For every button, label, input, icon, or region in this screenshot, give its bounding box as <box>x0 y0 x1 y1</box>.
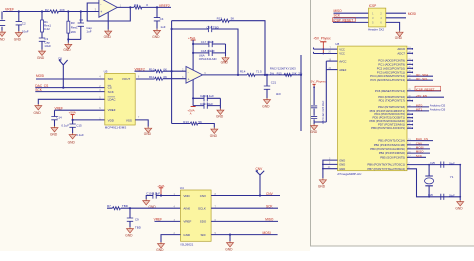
MCU U8 ATmega328P-AU <box>335 42 407 176</box>
svg-text:PB0 (PCINT0/CLKO/ICP1): PB0 (PCINT0/CLKO/ICP1) <box>371 126 405 130</box>
svg-text:+: + <box>100 10 102 14</box>
svg-text:LDAC: LDAC <box>108 97 117 101</box>
op-amp U6A OPA1641AID <box>182 53 217 83</box>
svg-text:GND: GND <box>183 233 191 237</box>
svg-text:INT1: INT1 <box>416 108 423 112</box>
svg-text:10uF: 10uF <box>22 29 29 33</box>
ground below C15 <box>69 133 76 139</box>
wire V+ pin rail <box>192 40 194 70</box>
svg-text:71.5: 71.5 <box>256 70 262 74</box>
capacitor C15 0.1uF <box>69 120 84 137</box>
wire pin stub PC2 <box>407 68 413 70</box>
svg-text:I2C_SCL: I2C_SCL <box>416 77 429 81</box>
wire U4 SDI out <box>211 234 278 236</box>
svg-text:+5VA: +5VA <box>157 184 164 188</box>
wire SCK pin <box>407 156 426 158</box>
resistor R4 0 (series on output) <box>134 3 149 9</box>
svg-text:Y1: Y1 <box>450 175 454 179</box>
svg-text:SDI: SDI <box>108 77 113 81</box>
svg-text:R7: R7 <box>107 204 111 208</box>
svg-text:C4: C4 <box>160 17 164 21</box>
svg-text:GND: GND <box>14 38 22 42</box>
resistor R11 10K <box>149 75 167 80</box>
svg-text:C26: C26 <box>428 193 433 197</box>
wire DAC_CS to U5 CS <box>35 87 105 89</box>
svg-text:CNV: CNV <box>200 194 206 198</box>
wire VREF main rail <box>3 11 99 13</box>
ground below C2 <box>15 31 22 37</box>
ground below C9 <box>127 227 134 233</box>
wire AVCC stub <box>326 60 337 62</box>
svg-text:AIN0: AIN0 <box>183 207 190 211</box>
svg-text:GND: GND <box>339 158 345 162</box>
node Y junction gnd2 <box>322 164 324 166</box>
node A junction on VREF rail <box>18 10 20 12</box>
svg-text:C15: C15 <box>76 124 82 128</box>
node Z junction gnd3 <box>322 168 324 170</box>
node Q junction C21 tap <box>266 74 268 76</box>
svg-text:GND: GND <box>455 206 463 210</box>
resistor R3 Res1 20K <box>67 12 78 43</box>
svg-text:ATmega328P-AU: ATmega328P-AU <box>337 172 361 176</box>
svg-text:AREF: AREF <box>339 68 347 72</box>
capacitor C4 1uF <box>154 7 166 28</box>
ground below C4 <box>154 29 161 35</box>
wire INT1 pin <box>407 110 429 112</box>
ground below C14 <box>51 126 58 132</box>
svg-text:PB5 (SCK/PCINT5): PB5 (SCK/PCINT5) <box>380 155 405 159</box>
svg-text:VSS: VSS <box>126 118 132 122</box>
svg-text:1uF: 1uF <box>160 25 165 29</box>
svg-text:C14: C14 <box>56 116 62 120</box>
ground below crystal <box>457 200 464 206</box>
svg-text:GND: GND <box>37 56 45 60</box>
svg-text:OPA1641AID: OPA1641AID <box>199 57 218 61</box>
node U junction CNV tie <box>259 194 261 196</box>
svg-text:C17 10uF: C17 10uF <box>201 40 214 44</box>
wire pin stub PD4 <box>407 113 413 115</box>
svg-text:MOSI: MOSI <box>263 231 271 235</box>
svg-text:TBD: TBD <box>122 204 129 208</box>
svg-text:0.1uF: 0.1uF <box>76 133 84 137</box>
svg-text:SCLK: SCLK <box>198 207 206 211</box>
capacitor C2 <box>16 12 29 34</box>
wire R12 feedback top <box>172 21 265 75</box>
svg-text:GND: GND <box>0 38 5 42</box>
svg-text:U4: U4 <box>180 186 184 190</box>
svg-text:20K: 20K <box>60 8 65 12</box>
ground below C1 <box>0 31 6 37</box>
svg-text:GND: GND <box>156 248 164 252</box>
capacitor C22 (avcc) <box>311 106 317 108</box>
svg-text:GND: GND <box>152 35 160 39</box>
svg-text:R11: R11 <box>149 75 155 79</box>
capacitor C18 0.1uF <box>193 49 225 56</box>
resistor R10 10K <box>149 67 167 72</box>
svg-text:-: - <box>100 2 101 6</box>
svg-text:+5VA: +5VA <box>69 110 76 114</box>
svg-text:GND: GND <box>339 163 345 167</box>
svg-text:GND: GND <box>34 111 42 115</box>
svg-text:+: + <box>188 78 190 82</box>
wire U5 VOUT into R11 <box>136 78 186 80</box>
svg-text:C9: C9 <box>135 218 139 222</box>
node T junction C9 tap <box>129 207 131 209</box>
wire U4 GND pin to ground <box>161 235 181 242</box>
power port +5VA (amp V- rail bottom) <box>187 107 195 116</box>
svg-text:0K: 0K <box>163 67 167 71</box>
resistor R1 Res1 0.22 <box>41 12 52 33</box>
wire GND pins join <box>323 160 338 178</box>
svg-text:R10: R10 <box>149 67 155 71</box>
svg-text:MOSI: MOSI <box>408 12 416 16</box>
node AB junction xtal2/crystal <box>428 196 430 198</box>
svg-text:RNCY1206TKY1003: RNCY1206TKY1003 <box>270 66 296 70</box>
wire pin stub PD6 <box>407 120 413 122</box>
wire ICSP_RESET to header pin5 <box>333 21 369 23</box>
svg-text:16pF: 16pF <box>449 161 455 165</box>
svg-text:1uF: 1uF <box>86 30 91 34</box>
node AV junction avcc port <box>313 86 315 88</box>
connector J? ICSP Header 3X2 <box>368 4 386 31</box>
capacitor C25 16pF <box>430 161 455 168</box>
svg-text:C2: C2 <box>22 21 26 25</box>
wire pin stub PC0 <box>407 60 413 62</box>
svg-text:PD1 (TXD/PCINT17): PD1 (TXD/PCINT17) <box>379 99 405 103</box>
wire MOSI to U5 SDI <box>36 78 105 80</box>
svg-text:GND: GND <box>63 48 71 52</box>
wire VCC pins rail <box>314 48 338 54</box>
wire VREF to U5 <box>55 109 105 111</box>
svg-text:R2: R2 <box>45 8 49 12</box>
svg-text:MOSI: MOSI <box>36 74 44 78</box>
net tie CNV (Y symbol) <box>256 167 265 196</box>
wire VREF to U4 <box>155 220 181 222</box>
wire XTAL1 top rail <box>407 164 460 166</box>
svg-text:3nF: 3nF <box>276 92 281 96</box>
wire pin stub PD5 <box>407 117 413 119</box>
wire U4 CNV out <box>211 195 280 197</box>
svg-text:5K: 5K <box>231 17 235 21</box>
svg-text:VCC: VCC <box>339 52 345 56</box>
svg-text:Arduino D3: Arduino D3 <box>430 108 446 112</box>
wire pin stub PC3 <box>407 72 413 74</box>
svg-text:R15: R15 <box>277 71 283 75</box>
svg-text:+5VA: +5VA <box>188 36 195 40</box>
resistor R13 5K <box>183 120 202 125</box>
capacitor C14 0.1uF <box>51 110 69 128</box>
node F junction output/feedback <box>129 6 131 8</box>
wire crystal right join <box>459 165 461 200</box>
capacitor C20 0.1uF <box>193 94 220 101</box>
sheet background left <box>0 0 310 251</box>
svg-text:SDO: SDO <box>200 220 207 224</box>
node M junction C18 <box>192 52 194 54</box>
ground for C19/C20 <box>217 109 224 115</box>
ground on LDAC <box>35 104 42 110</box>
wire VREF2 into R10 <box>135 70 187 72</box>
svg-text:C20 0.1uF: C20 0.1uF <box>200 94 214 98</box>
node O junction R12 on output <box>264 74 266 76</box>
resistor R15 RNCY1206TKY1003 10K <box>270 66 303 76</box>
svg-text:C8: C8 <box>58 57 62 61</box>
resistor R7 TBD input <box>107 204 129 210</box>
svg-text:GND: GND <box>210 134 218 138</box>
svg-text:PB7 (PCINT7/XTAL2/TOSC2): PB7 (PCINT7/XTAL2/TOSC2) <box>367 167 405 171</box>
wire I2C_SCL pin <box>407 79 433 81</box>
svg-text:GND: GND <box>221 60 229 64</box>
svg-text:0K: 0K <box>163 75 167 79</box>
svg-text:VREF: VREF <box>108 108 116 112</box>
node P junction output stub <box>300 74 302 76</box>
svg-text:VCC: VCC <box>339 47 345 51</box>
svg-text:VDD: VDD <box>108 118 115 122</box>
wire MOSI pin <box>407 148 430 150</box>
svg-text:GND: GND <box>144 132 152 136</box>
svg-text:Res1: Res1 <box>71 25 78 29</box>
svg-text:SCK: SCK <box>334 14 341 18</box>
node H junction C8 on DAC_CS <box>62 87 64 89</box>
svg-text:C22 0.1uF C23 10uF: C22 0.1uF C23 10uF <box>322 100 325 124</box>
wire C17/C18 right join to ground <box>225 44 227 56</box>
ground below op-amp U2A <box>107 12 109 29</box>
svg-text:10K: 10K <box>292 71 297 75</box>
svg-text:20K: 20K <box>71 30 76 34</box>
svg-text:SCK: SCK <box>416 154 422 158</box>
capacitor C17 10uF <box>193 40 225 47</box>
ground below R3 <box>65 43 72 49</box>
capacitor C1 (partial at left edge) <box>0 12 5 31</box>
svg-text:GND: GND <box>50 132 58 136</box>
ground below C21 <box>264 98 271 104</box>
wire header pin2 out <box>386 12 406 14</box>
svg-text:GND: GND <box>262 104 270 108</box>
svg-text:5V_Phyrex: 5V_Phyrex <box>311 79 327 83</box>
node J junction feedback/minus input <box>171 70 173 72</box>
wire pin stub PD1 <box>407 100 413 102</box>
svg-text:10uF: 10uF <box>44 44 51 48</box>
ground for C10 <box>143 199 150 205</box>
capacitor C23 (avcc) <box>311 117 317 119</box>
node X junction vcc2 <box>322 53 324 55</box>
svg-text:MCP4911-E/MS: MCP4911-E/MS <box>105 126 126 130</box>
capacitor C9 TBD <box>127 208 142 229</box>
svg-text:R14: R14 <box>240 70 246 74</box>
ground below U4 right <box>227 241 234 247</box>
svg-text:MISO: MISO <box>334 9 343 13</box>
node L junction C17 <box>192 43 194 45</box>
wire U4 SCLK out <box>211 207 278 209</box>
node B junction on VREF rail <box>41 10 43 12</box>
svg-text:5%: 5% <box>270 71 275 75</box>
wire V- pin rail down <box>192 80 194 106</box>
wire SCK to U5 SCK <box>35 91 105 93</box>
resistor R14 71.5 <box>240 70 262 77</box>
wire SDI gnd stub <box>229 235 231 241</box>
ground below C3 <box>39 50 46 56</box>
wire ICSP_RESET pin <box>407 90 441 92</box>
svg-text:GND: GND <box>68 141 76 145</box>
svg-text:0.1uF: 0.1uF <box>61 124 69 128</box>
svg-text:GND: GND <box>216 115 224 119</box>
svg-text:VREF: VREF <box>183 220 191 224</box>
svg-text:R4: R4 <box>134 3 138 7</box>
wire MISO to header pin1 <box>334 12 369 14</box>
svg-text:GND: GND <box>225 247 233 251</box>
net tie C8 (Y symbol) <box>58 57 68 88</box>
node R junction C20 <box>192 97 194 99</box>
svg-text:PC5 (ADC5/SCL/PCINT13): PC5 (ADC5/SCL/PCINT13) <box>370 78 405 82</box>
capacitor C3 Cap 10uF <box>39 32 52 50</box>
node G junction at C4 tap <box>156 6 158 8</box>
svg-text:C18 0.1uF: C18 0.1uF <box>201 49 215 53</box>
svg-text:C16 TBD: C16 TBD <box>207 25 220 29</box>
svg-text:VREF2: VREF2 <box>159 4 170 8</box>
svg-text:GND: GND <box>318 185 326 189</box>
wire INT0 pin <box>407 106 429 108</box>
svg-text:GND: GND <box>310 130 318 134</box>
svg-text:+5V_Phyrex: +5V_Phyrex <box>313 36 331 40</box>
svg-text:GND: GND <box>395 36 403 40</box>
svg-text:Header 3X2: Header 3X2 <box>368 28 384 32</box>
svg-text:SDI: SDI <box>201 233 206 237</box>
node C junction on rail <box>67 10 69 12</box>
ground for C17/C18 <box>222 56 229 62</box>
svg-text:R3: R3 <box>71 21 75 25</box>
ground below R13 <box>211 128 218 134</box>
power port +5VA (adc) <box>157 184 164 196</box>
node N junction C16 on output <box>237 74 239 76</box>
ground below VSS <box>145 127 152 133</box>
svg-text:SCK: SCK <box>266 205 273 209</box>
op-amp U2A buffer (top cut off) <box>95 0 122 17</box>
svg-text:C6: C6 <box>79 18 83 22</box>
crystal Y1 <box>425 165 454 197</box>
wire pin stub PC1 <box>407 64 413 66</box>
wire header pin4 out <box>386 17 406 19</box>
node E junction on rail at C6 <box>80 10 82 12</box>
sheet background right <box>310 0 474 246</box>
svg-text:-: - <box>188 70 189 74</box>
wire op-amp output <box>117 6 171 8</box>
wire op-amp output <box>203 74 302 76</box>
capacitor C19 10uF <box>193 102 220 109</box>
svg-text:CNV: CNV <box>266 192 274 196</box>
svg-text:AVCC: AVCC <box>339 59 346 63</box>
svg-text:R13: R13 <box>183 120 189 124</box>
ground below U4 left <box>158 242 165 248</box>
svg-text:TBD: TBD <box>135 225 142 229</box>
wire pin stub PB0 <box>407 127 413 129</box>
capacitor C21 3nF <box>264 75 281 98</box>
resistor R2 20K (series on rail) <box>45 8 65 13</box>
node D junction R3 bottom <box>67 38 69 40</box>
power port 5V_Phyrex (avcc) <box>311 79 327 87</box>
svg-text:5K: 5K <box>198 120 202 124</box>
svg-text:VOUT: VOUT <box>122 77 131 81</box>
ground below header <box>396 31 403 37</box>
DAC U5 MCP4911-E/MS <box>99 70 140 130</box>
wire AREF stub <box>326 69 337 71</box>
node S junction +5VA/VDD adc <box>160 194 162 196</box>
svg-text:U8: U8 <box>335 42 339 46</box>
wire avcc decoupling chain <box>314 61 326 124</box>
wire op-amp minus input loop <box>87 3 130 21</box>
wire pin stub ADC7 <box>407 53 413 55</box>
svg-text:PC6 (RESET/PCINT14): PC6 (RESET/PCINT14) <box>375 89 405 93</box>
ADC U4 ISL26021 <box>174 186 217 246</box>
wire DAC_CS pin <box>407 140 433 142</box>
node V junction SDI gnd stub <box>229 234 231 236</box>
divider border between two schematic captures <box>311 0 474 246</box>
svg-text:C25: C25 <box>430 161 435 165</box>
node AC junction right top <box>459 164 461 166</box>
svg-text:R12: R12 <box>217 17 223 21</box>
svg-text:+5V_EN: +5V_EN <box>416 94 427 98</box>
svg-text:A: A <box>190 112 192 116</box>
wire I2C_SDA pin <box>407 75 433 77</box>
wire R7 to U4 AIN0 <box>107 207 181 209</box>
wire pin stub PD7 <box>407 124 413 126</box>
MCU right pin names column <box>367 47 405 171</box>
node AD junction right bottom <box>459 196 461 198</box>
ground below MCU <box>319 178 326 184</box>
capacitor C26 16pF <box>428 193 455 200</box>
svg-text:C21: C21 <box>271 80 277 84</box>
power port +5V_Phyrex (vcc) <box>313 36 331 53</box>
svg-text:GND: GND <box>104 35 112 39</box>
wire CNV pin <box>407 144 429 146</box>
wire from R3 bottom to C6 bottom <box>68 38 81 40</box>
wire output stub vertical <box>300 55 302 131</box>
svg-text:GND: GND <box>339 167 345 171</box>
svg-text:SCK: SCK <box>108 90 114 94</box>
node AA junction xtal1/crystal <box>428 164 430 166</box>
wire XTAL2 bottom rail <box>407 169 460 197</box>
svg-text:C19 10uF: C19 10uF <box>200 102 213 106</box>
wire MISO pin <box>407 152 430 154</box>
wire +5VA to U5 VDD <box>73 119 105 121</box>
svg-text:ADC6: ADC6 <box>397 47 405 51</box>
power port +5VA (amp V+) <box>188 36 196 40</box>
node W junction vcc1 <box>322 48 324 50</box>
svg-text:16pF: 16pF <box>449 193 455 197</box>
wire header pin6 to ground <box>386 22 400 30</box>
wire SCK to header pin3 <box>334 17 369 19</box>
capacitor C10 0.1uF <box>146 192 161 199</box>
svg-text:MISO: MISO <box>265 218 274 222</box>
capacitor C6 Cap 1uF <box>78 12 93 40</box>
wire pin stub ADC6 <box>407 48 413 50</box>
wire +5VA to U4 VDD <box>161 195 181 197</box>
svg-text:0.22: 0.22 <box>44 27 50 31</box>
net label ICSP_RESET (boxed) <box>333 18 356 23</box>
power port +5VA (dac) <box>69 110 76 120</box>
wire +5V_EN pin <box>407 96 444 98</box>
wire C19/C20 right join to ground <box>219 98 221 108</box>
svg-text:ADC7: ADC7 <box>397 51 405 55</box>
capacitor C16 TBD (feedback) <box>172 25 238 75</box>
node I junction +5VA/VDD <box>72 119 74 121</box>
wire U4 SDO out <box>211 220 278 222</box>
svg-text:VDD: VDD <box>183 194 190 198</box>
wire U5 VSS to ground <box>135 120 148 127</box>
wire feedback left vertical <box>171 21 173 124</box>
wire R13 bottom leg <box>172 124 215 128</box>
node K junction C16 branch <box>171 28 173 30</box>
wire LDAC to ground <box>38 99 105 104</box>
svg-text:GND: GND <box>125 234 133 238</box>
